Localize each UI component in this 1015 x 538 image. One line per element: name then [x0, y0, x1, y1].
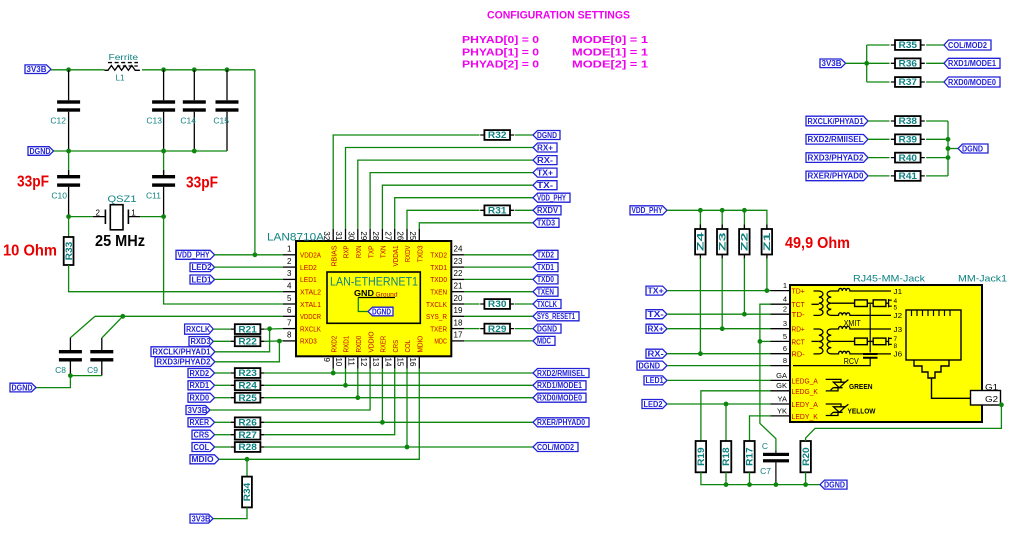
junction DGND tap [946, 146, 951, 151]
svg-text:TXER: TXER [430, 326, 447, 333]
svg-text:LEDY_K: LEDY_K [792, 412, 818, 421]
svg-text:SYS_RESET1: SYS_RESET1 [537, 312, 575, 321]
wire LED ground rail [701, 472, 820, 484]
svg-text:CONFIGURATION SETTINGS: CONFIGURATION SETTINGS [487, 10, 630, 22]
wire 3V3B rail to ferrite [51, 69, 105, 71]
svg-text:4: 4 [287, 282, 292, 291]
wire MDIO row to pin 16 [219, 369, 419, 460]
svg-text:RXCLK: RXCLK [300, 326, 321, 333]
svg-text:PHYAD[2] = 0: PHYAD[2] = 0 [462, 59, 539, 71]
wire RXD0 row to right label [265, 397, 533, 399]
svg-text:SYS_R: SYS_R [426, 314, 447, 321]
svg-text:29: 29 [359, 231, 368, 240]
svg-text:VDD_PHY: VDD_PHY [537, 194, 567, 203]
wire R34 to 3V3B [213, 507, 247, 518]
U1 pin 13 (RXER) [381, 356, 383, 368]
wire R20 to G2 net [806, 405, 1002, 441]
wire TX- to jack [667, 313, 771, 315]
wire R21 to pin 7 [265, 328, 283, 331]
svg-text:TXD2: TXD2 [537, 251, 554, 260]
svg-text:XTAL2: XTAL2 [300, 290, 321, 297]
wire pin 21 to TXEN label [464, 291, 533, 293]
svg-text:RCT: RCT [792, 337, 806, 346]
svg-text:VDDA1: VDDA1 [393, 245, 400, 266]
svg-text:RXCLK/PHYAD1: RXCLK/PHYAD1 [808, 117, 864, 126]
svg-text:Z4: Z4 [696, 233, 706, 252]
label 3V3B (top right) [820, 59, 846, 68]
svg-text:RX-: RX- [537, 156, 553, 165]
label TXCLK (right of U1) [533, 300, 561, 309]
label RX- (RJ45 side) [646, 349, 667, 358]
resistor R32 [480, 134, 514, 136]
wire pin 18 to R29 [464, 328, 479, 330]
capacitor C12 [68, 70, 70, 101]
svg-text:3V3B: 3V3B [822, 59, 842, 68]
junction Z4 bottom [698, 351, 703, 356]
svg-text:J1: J1 [894, 287, 903, 296]
svg-text:YA: YA [778, 394, 787, 403]
svg-text:DGND: DGND [30, 147, 51, 156]
svg-text:R36: R36 [899, 59, 918, 69]
svg-text:R28: R28 [238, 442, 257, 452]
resistor R27 [215, 434, 231, 436]
svg-text:R38: R38 [899, 116, 918, 126]
U1 pin 18 (TXER) [451, 328, 464, 330]
svg-text:RXD1/MODE1: RXD1/MODE1 [948, 59, 997, 68]
label RX+ (top) [533, 143, 557, 152]
svg-text:RXER: RXER [381, 336, 388, 353]
wire LED2 to jack [667, 403, 771, 405]
svg-text:MDIO: MDIO [418, 335, 425, 352]
capacitor C11 [163, 151, 165, 175]
wire Z3 to row [721, 255, 723, 260]
svg-text:49,9 Ohm: 49,9 Ohm [785, 235, 850, 252]
wire pin 17 to MDC label [464, 340, 533, 342]
svg-text:MODE[1] = 1: MODE[1] = 1 [572, 46, 648, 58]
wire pin 22 to TXD0 label [464, 278, 533, 280]
svg-text:RXER/PHYAD0: RXER/PHYAD0 [537, 418, 585, 427]
svg-text:LED2: LED2 [300, 265, 317, 272]
label RXD2/RMIISEL (mid right) [533, 369, 589, 378]
svg-text:CRS: CRS [194, 431, 210, 440]
svg-text:TXN: TXN [381, 246, 388, 259]
svg-text:RBIAS: RBIAS [331, 245, 338, 266]
svg-text:27: 27 [383, 231, 392, 240]
svg-text:G2: G2 [985, 394, 998, 404]
junction crystal pin2 / C10 / R33 [66, 214, 71, 219]
svg-text:26: 26 [396, 231, 405, 240]
resistor Z4 [699, 210, 701, 229]
U1 pin 27 (VDDA1) [394, 229, 396, 241]
junction pin column [355, 395, 360, 400]
svg-text:COL/MOD2: COL/MOD2 [948, 41, 987, 50]
wire R32 to DGND [515, 134, 533, 136]
MM-Jack1 pin GK (LEDG_K) [771, 390, 791, 392]
svg-text:RXD3: RXD3 [191, 337, 212, 346]
svg-text:3V3B: 3V3B [27, 65, 47, 74]
label RXD0/MODE0 (top right) [944, 77, 1000, 87]
svg-text:TXD3: TXD3 [537, 219, 555, 228]
junction C8 bottom [68, 373, 73, 378]
svg-text:R23: R23 [238, 368, 257, 378]
resistor R38 [868, 120, 890, 122]
label DGND (right of U1) [533, 324, 561, 333]
RCV output lines [838, 326, 891, 329]
svg-text:1: 1 [131, 209, 136, 218]
label RXER [188, 418, 215, 427]
junction R21 / PHYAD1 [267, 326, 272, 331]
svg-text:QSZ1: QSZ1 [108, 194, 137, 204]
XMIT output lines [838, 288, 891, 291]
svg-text:RXD2/RMIISEL: RXD2/RMIISEL [537, 369, 585, 378]
svg-text:C15: C15 [213, 116, 229, 126]
U1 pin 11 (RXD0) [357, 356, 359, 368]
wire R18 tap [725, 404, 727, 441]
svg-text:TXD3: TXD3 [418, 245, 425, 262]
svg-text:RXDV: RXDV [537, 206, 559, 215]
junction Z2 bottom [742, 312, 747, 317]
capacitor (termination, inside jack) [863, 354, 878, 358]
svg-text:R26: R26 [238, 418, 257, 428]
wire R29 to DGND label [515, 328, 533, 330]
resistor R20 [800, 441, 811, 472]
svg-text:28: 28 [371, 231, 380, 240]
resistor R33 [68, 217, 70, 237]
capacitor C10 [68, 151, 70, 175]
svg-text:RXDV: RXDV [405, 245, 412, 262]
svg-text:C9: C9 [87, 365, 98, 375]
wire to chip pin [381, 369, 383, 423]
wire COL row to right label [265, 446, 533, 448]
svg-text:R41: R41 [899, 171, 918, 181]
junction MDIO / R34 [245, 457, 250, 462]
wire R35 to COL/MOD2 [926, 44, 944, 46]
junction R20 rail [803, 482, 808, 487]
label RXD1/MODE1 (top right) [944, 58, 1000, 68]
label COL [192, 443, 215, 452]
wire pin 28 to TX- label [382, 185, 533, 229]
wire RXD2 row to right label [265, 372, 533, 374]
wire common termination to cap [869, 304, 871, 352]
svg-text:MDIO: MDIO [192, 455, 214, 464]
svg-text:Z3: Z3 [717, 233, 727, 252]
wire CRS row to chip pin [265, 369, 395, 435]
svg-text:RXD1: RXD1 [190, 381, 210, 390]
svg-text:R33: R33 [64, 242, 74, 261]
wire RX- to jack [667, 353, 771, 355]
resistor R22 [213, 340, 230, 342]
wire R36 to RXD1/MODE1 [926, 62, 944, 64]
svg-text:C14: C14 [180, 116, 196, 126]
svg-text:VDDCR: VDDCR [300, 314, 321, 321]
MM-Jack1 pin 4 (TCT) [771, 303, 791, 305]
resistor R17 [744, 441, 755, 472]
label RXD3/PHYAD2 (right group) [806, 153, 868, 163]
U1 pin 19 (SYS_R) [451, 315, 464, 317]
junction C7 rail [774, 482, 779, 487]
label RXD2 [188, 369, 215, 378]
wire pin 24 to TXD2 label [464, 254, 533, 256]
svg-text:COL: COL [194, 443, 210, 452]
svg-text:8: 8 [783, 356, 787, 365]
svg-text:2: 2 [783, 305, 787, 314]
resistor R28 [215, 446, 231, 448]
svg-text:TXD1: TXD1 [537, 263, 554, 272]
junction G2 [999, 402, 1004, 407]
svg-text:RXD2: RXD2 [331, 336, 338, 353]
svg-text:31: 31 [334, 231, 343, 240]
resistor Z3 [721, 210, 723, 229]
svg-text:25: 25 [408, 231, 417, 240]
svg-text:RXD1: RXD1 [344, 336, 351, 353]
svg-text:DGND: DGND [537, 324, 557, 333]
resistor R35 [867, 44, 890, 46]
wire DGND rail [54, 150, 227, 152]
label RXD3 [189, 337, 213, 347]
wire XTAL1 net to pin 5 [164, 217, 283, 304]
svg-text:21: 21 [454, 282, 463, 291]
svg-text:C7: C7 [760, 466, 771, 476]
U1 pin 5 (XTAL1) [283, 303, 296, 305]
XMIT termination resistors [831, 302, 854, 304]
svg-text:RXP: RXP [344, 245, 351, 258]
U1 pin 15 (COL) [406, 356, 408, 368]
resistor R26 [215, 421, 231, 423]
svg-text:3: 3 [783, 319, 787, 328]
resistor R24 [215, 384, 231, 386]
label TXD2 (right of U1) [533, 250, 558, 259]
label TX+ (top) [533, 168, 557, 177]
svg-text:10 Ohm: 10 Ohm [3, 243, 57, 260]
wire RBIAS to R32 [333, 135, 479, 229]
label COL/MOD2 (mid right) [533, 443, 578, 452]
label DGND (inside U1) [368, 307, 393, 316]
resistor R39 [868, 138, 890, 140]
wire RXD1 row to right label [265, 384, 533, 386]
wire VDD_PHY to pin 1 [215, 254, 283, 256]
svg-text:32: 32 [322, 231, 331, 240]
junction Z4 [698, 208, 703, 213]
U1 pin 26 (RXDV) [406, 229, 408, 241]
RCV termination resistors [831, 340, 854, 342]
svg-text:22: 22 [454, 269, 463, 278]
resistor R30 [480, 303, 514, 305]
junction LED2 / R18 [724, 402, 729, 407]
resistor R18 [721, 441, 732, 472]
svg-text:LAN8710A: LAN8710A [267, 232, 325, 244]
svg-text:LED1: LED1 [300, 277, 317, 284]
U1 pin 17 (MDC) [451, 340, 464, 342]
svg-text:R18: R18 [721, 447, 731, 466]
svg-text:YK: YK [777, 406, 787, 415]
U1 pin 30 (RXN) [357, 229, 359, 241]
svg-text:J6: J6 [894, 350, 903, 359]
label RX- (top) [533, 156, 557, 165]
svg-text:RXD1/MODE1: RXD1/MODE1 [537, 381, 582, 390]
label RXDV [533, 206, 561, 215]
svg-text:TXCLK: TXCLK [537, 300, 557, 309]
svg-text:Ferrite: Ferrite [109, 52, 139, 62]
svg-text:TX+: TX+ [648, 286, 665, 295]
svg-text:6: 6 [287, 306, 292, 315]
svg-text:15: 15 [396, 358, 405, 367]
svg-text:YELLOW: YELLOW [848, 407, 877, 416]
wire VDD_PHY rail [667, 210, 767, 229]
U1 pin 2 (LED2) [283, 266, 296, 268]
junction R39 [946, 137, 951, 142]
MM-Jack1 pin YK (LEDY_K) [771, 415, 791, 417]
U1 pin 31 (RXP) [345, 229, 347, 241]
U1 pin 28 (TXN) [381, 229, 383, 241]
connector MM-Jack1 body [790, 285, 982, 422]
svg-text:C12: C12 [50, 116, 66, 126]
U1 pin 29 (TXP) [369, 229, 371, 241]
MM-Jack1 pin 2 (TD-) [771, 313, 791, 315]
svg-text:19: 19 [454, 306, 463, 315]
svg-text:R39: R39 [899, 135, 918, 145]
svg-text:20: 20 [454, 294, 463, 303]
svg-text:23: 23 [454, 257, 463, 266]
U1 pin 14 (CRS) [394, 356, 396, 368]
junction R40 [946, 155, 951, 160]
svg-text:RXCLK: RXCLK [186, 325, 210, 334]
label RXCLK/PHYAD1 (right group) [806, 116, 868, 126]
U1 pin 23 (TXD1) [451, 266, 464, 268]
svg-text:GREEN: GREEN [849, 382, 873, 391]
svg-text:RXD3: RXD3 [300, 339, 317, 346]
label DGND (R32) [533, 131, 560, 140]
label DGND (RJ45 side) [637, 361, 667, 370]
wire C8/C9 ground [36, 376, 102, 388]
wire DGND bus [947, 121, 949, 176]
U1 pin 12 (VDDIO) [369, 356, 371, 368]
label COL/MOD2 (top right) [944, 40, 991, 50]
svg-text:LEDY_A: LEDY_A [792, 400, 818, 409]
svg-text:3V3B: 3V3B [192, 514, 211, 523]
label 3V3B (top left) [25, 65, 51, 74]
wire pin 27 to VDD_PHY label [395, 198, 533, 229]
U1 pin 25 (TXD3) [418, 229, 420, 241]
U1 pin 24 (TXD2) [451, 254, 464, 256]
junction pin column [380, 420, 385, 425]
wire RX+ to jack [667, 328, 771, 330]
wire R41 to DGND bus [926, 175, 948, 177]
label RXD3/PHYAD2 (left) [155, 357, 215, 367]
junction VDD rail / pin1 [253, 252, 258, 257]
svg-text:COL: COL [405, 340, 412, 353]
label CRS [192, 430, 215, 439]
svg-text:RX-: RX- [648, 350, 665, 359]
wire pin 31 to RX+ label [346, 148, 534, 229]
svg-text:R30: R30 [488, 299, 507, 309]
svg-text:RCV: RCV [844, 357, 860, 366]
svg-text:5: 5 [783, 332, 787, 341]
svg-text:4: 4 [783, 295, 787, 304]
svg-text:11: 11 [347, 358, 356, 367]
svg-text:DGND: DGND [372, 307, 391, 316]
junction pin column [405, 445, 410, 450]
svg-text:R32: R32 [488, 130, 507, 140]
svg-text:RXD2/RMIISEL: RXD2/RMIISEL [808, 135, 864, 144]
svg-text:LED2: LED2 [644, 400, 664, 409]
wire to chip pin [332, 369, 334, 373]
label RXD2/RMIISEL (right group) [806, 135, 868, 145]
svg-text:RXD3/PHYAD2: RXD3/PHYAD2 [157, 358, 212, 367]
svg-text:LED1: LED1 [192, 275, 213, 284]
label DGND (right group) [958, 144, 988, 153]
svg-text:1: 1 [287, 245, 292, 254]
label MDC (right of U1) [533, 336, 555, 345]
svg-text:RD-: RD- [792, 350, 806, 359]
svg-text:R29: R29 [488, 324, 507, 334]
svg-text:25 MHz: 25 MHz [95, 233, 145, 250]
U1 pin 4 (XTAL2) [283, 291, 296, 293]
wire R39 to DGND bus [926, 138, 948, 140]
svg-text:MODE[0] = 1: MODE[0] = 1 [572, 34, 648, 46]
svg-text:5: 5 [287, 294, 292, 303]
svg-text:6: 6 [783, 344, 787, 353]
svg-text:R25: R25 [238, 393, 257, 403]
svg-text:17: 17 [454, 331, 463, 340]
svg-text:18: 18 [454, 318, 463, 327]
svg-text:RXCLK/PHYAD1: RXCLK/PHYAD1 [153, 348, 212, 357]
wire VDDCR net to pin 6 [95, 315, 283, 317]
svg-text:VDDIO: VDDIO [368, 331, 375, 353]
label SYS_RESET1 (right of U1) [533, 312, 579, 321]
svg-text:DGND: DGND [12, 383, 33, 392]
svg-text:XMIT: XMIT [844, 319, 861, 328]
junction R18 rail [724, 482, 729, 487]
capacitor C9 [101, 338, 103, 350]
label VDD_PHY (top) [533, 193, 570, 202]
U1 pin 20 (TXCLK) [451, 303, 464, 305]
svg-text:VDD_PHY: VDD_PHY [178, 251, 211, 260]
svg-text:VDD2A: VDD2A [300, 253, 321, 260]
svg-text:R17: R17 [745, 447, 755, 466]
junction R22 / PHYAD2 [277, 339, 282, 344]
svg-text:C: C [762, 441, 768, 451]
resistor R21 [213, 328, 230, 330]
label RXER/PHYAD0 (mid right) [533, 418, 589, 427]
svg-text:R19: R19 [696, 447, 706, 466]
svg-text:TCT: TCT [792, 300, 806, 309]
resistor R29 [480, 328, 514, 330]
junction C14 bottom [192, 149, 197, 154]
resistor R25 [215, 397, 231, 399]
junction Z1 bottom [765, 288, 770, 293]
junction C12 bottom / C10 top [66, 149, 71, 154]
junction C14 top [192, 67, 197, 72]
wire pin 23 to TXD1 label [464, 266, 533, 268]
junction pin column [343, 383, 348, 388]
svg-text:RX+: RX+ [648, 325, 665, 334]
label RXER/PHYAD0 (right group) [806, 171, 868, 181]
label RXD1 [188, 381, 215, 390]
svg-text:MDC: MDC [537, 337, 551, 346]
resistor R37 [867, 81, 890, 83]
junction C13 top [161, 67, 166, 72]
resistor R31 [480, 209, 514, 211]
U1 pin 6 (VDDCR) [283, 315, 296, 317]
junction 3V3B bus [864, 61, 869, 66]
svg-text:TXCLK: TXCLK [426, 302, 447, 309]
junction VDDCR / C9 [120, 314, 125, 319]
capacitor C8 [69, 338, 71, 350]
label LED2 (RJ45 side) [642, 400, 667, 409]
wire Z1 to row [766, 255, 768, 260]
resistor R23 [215, 372, 231, 374]
resistor R34 [246, 459, 248, 476]
